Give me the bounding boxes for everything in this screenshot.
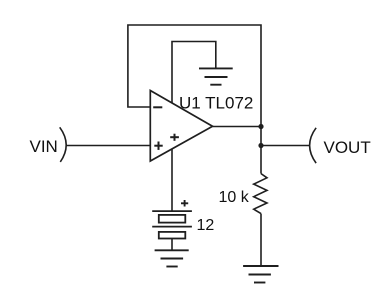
node (VOUT junction) (258, 143, 263, 148)
ground (below battery) (155, 250, 189, 266)
op-amp positive supply marker (170, 134, 179, 141)
svg-text:10 k: 10 k (219, 189, 250, 206)
ground (top, at op-amp V- supply) (199, 68, 233, 84)
svg-text:VOUT: VOUT (324, 138, 371, 157)
wire feedback loop (output to inverting input) (128, 25, 261, 127)
wire output node segment (260, 127, 262, 146)
wire node to resistor R1 top (260, 146, 262, 174)
battery plate long (top) (152, 210, 192, 212)
battery plus marker (181, 200, 188, 207)
wire op-amp output to node (213, 126, 262, 128)
VOUT connector arc (310, 128, 317, 163)
battery plate rect 2 (159, 232, 186, 239)
wire V+ pin to battery positive (171, 149, 173, 212)
wire VIN to non-inverting input (66, 145, 150, 147)
battery plate rect 1 (159, 215, 186, 223)
node (output junction) (258, 124, 263, 129)
wire resistor bottom to ground (260, 214, 262, 266)
battery V1 12V (152, 211, 192, 250)
svg-text:U1 TL072: U1 TL072 (179, 94, 253, 113)
wire inner loop (V- pin to top ground) (172, 42, 216, 104)
op-amp inverting input marker (153, 106, 162, 108)
battery plate long (middle) (152, 226, 192, 228)
resistor R1 10 k (254, 174, 267, 214)
wire battery to ground stub (171, 239, 173, 251)
ground (bottom right, below resistor) (243, 266, 278, 283)
svg-text:VIN: VIN (30, 137, 58, 156)
wire VOUT tap (261, 145, 310, 147)
op-amp non-inverting input marker (154, 142, 162, 150)
VIN connector arc (60, 127, 67, 162)
op-amp U1 (150, 91, 212, 162)
svg-text:12: 12 (197, 217, 215, 234)
